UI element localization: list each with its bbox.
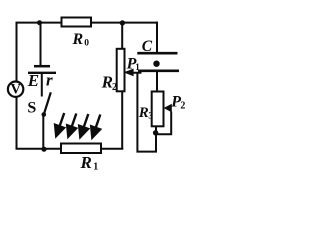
svg-text:2: 2 [112, 82, 117, 93]
svg-text:V: V [11, 82, 22, 98]
svg-text:S: S [27, 99, 36, 116]
svg-text:R: R [138, 105, 149, 121]
svg-text:r: r [46, 70, 53, 89]
svg-text:1: 1 [135, 62, 140, 72]
svg-text:E: E [27, 71, 39, 90]
svg-text:2: 2 [180, 101, 185, 112]
svg-text:1: 1 [93, 162, 98, 173]
svg-text:C: C [142, 38, 153, 55]
svg-text:0: 0 [84, 39, 89, 49]
svg-text:3: 3 [148, 111, 153, 121]
svg-text:R: R [72, 31, 84, 48]
svg-text:R: R [80, 153, 92, 172]
